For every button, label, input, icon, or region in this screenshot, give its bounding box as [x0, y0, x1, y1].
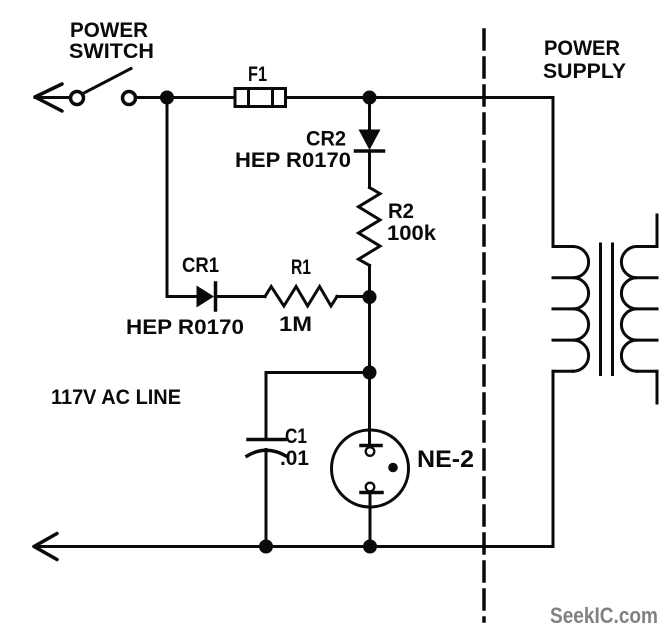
switch S1 lever arm — [84, 69, 131, 94]
wire: switch to fuse F1 — [136, 96, 236, 99]
wire: bottom AC line — [34, 545, 553, 548]
svg-text:R2: R2 — [388, 200, 414, 223]
wire: CR1 cathode to R1 — [216, 295, 266, 298]
wire: fuse to power-supply corner — [286, 96, 554, 99]
label: POWER SWITCH — [69, 19, 154, 63]
svg-text:F1: F1 — [248, 63, 267, 86]
wire: transformer primary to bottom line — [552, 371, 555, 546]
wire: CR2 cathode to R2 — [368, 151, 371, 188]
wire: secondary top lead stub — [656, 215, 659, 247]
transformer T1 secondary winding — [621, 247, 657, 372]
label: POWER SUPPLY — [543, 37, 626, 83]
switch S1 pole contact — [71, 92, 84, 105]
neon lamp NE-2 inner dot — [388, 463, 398, 473]
diode CR2 (cathode down) — [356, 130, 384, 152]
svg-text:100k: 100k — [387, 222, 436, 245]
transformer T1 primary winding — [553, 247, 589, 372]
svg-text:HEP R0170: HEP R0170 — [126, 316, 244, 339]
junction: node D (C1 branch) — [363, 366, 377, 380]
svg-text:.01: .01 — [280, 447, 309, 470]
wire: C1 to bottom line — [265, 450, 268, 547]
wire: secondary bottom lead stub — [656, 371, 659, 403]
wire: top AC line left arrow terminal — [35, 84, 62, 111]
fuse F1 body — [235, 89, 286, 107]
wire: lamp bottom electrode to bottom line — [369, 493, 372, 547]
wire: node A down the left branch — [166, 98, 169, 297]
diode CR1 (cathode right) — [197, 283, 216, 310]
wire: R2 to node C — [368, 265, 371, 297]
svg-text:117V AC LINE: 117V AC LINE — [51, 386, 181, 409]
junction: node C (R1/R2 junction) — [363, 290, 377, 304]
wire: corner down to C1 — [265, 373, 268, 440]
svg-text:SeekIC.com: SeekIC.com — [550, 603, 658, 628]
svg-text:CR1: CR1 — [182, 254, 219, 277]
svg-text:SWITCH: SWITCH — [69, 40, 154, 63]
wire: node C to node D — [368, 297, 371, 373]
wire: bottom AC line left arrow terminal — [34, 534, 57, 560]
power supply boundary (dashed) — [482, 30, 486, 621]
svg-text:POWER: POWER — [70, 19, 148, 42]
transformer T1 core — [601, 244, 613, 375]
wire: node D down to lamp top electrode — [368, 373, 371, 447]
wire: node D left to C1 top — [266, 371, 370, 374]
svg-text:SUPPLY: SUPPLY — [543, 60, 626, 83]
svg-text:R1: R1 — [291, 256, 311, 279]
switch S1 throw contact — [123, 92, 136, 105]
svg-text:1M: 1M — [279, 313, 312, 336]
neon lamp NE-2 envelope — [332, 430, 409, 507]
neon lamp NE-2 top electrode — [361, 446, 381, 456]
junction: C1 bottom node — [259, 540, 273, 554]
junction: top node B (CR2 branch) — [363, 91, 377, 105]
neon lamp NE-2 bottom electrode — [361, 483, 382, 493]
svg-text:POWER: POWER — [544, 37, 620, 60]
wire: top line down to transformer primary — [552, 98, 555, 247]
wire: R1 to node C — [337, 295, 370, 298]
resistor R1 zigzag — [265, 287, 337, 307]
svg-text:HEP R0170: HEP R0170 — [235, 149, 351, 172]
svg-text:C1: C1 — [285, 425, 307, 448]
junction: lamp bottom node — [363, 540, 377, 554]
wire: arrow tip to switch pole — [35, 96, 71, 99]
capacitor C1 — [247, 440, 286, 457]
resistor R2 zigzag — [359, 188, 381, 266]
wire: node B down to CR2 anode — [368, 98, 371, 131]
svg-text:CR2: CR2 — [306, 128, 346, 151]
svg-text:NE-2: NE-2 — [417, 446, 474, 473]
wire: left branch corner to CR1 anode — [167, 295, 197, 298]
junction: top node A — [160, 91, 174, 105]
